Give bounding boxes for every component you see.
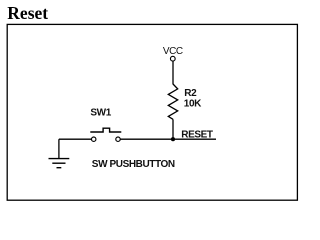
svg-text:SW PUSHBUTTON: SW PUSHBUTTON	[92, 159, 175, 170]
wire SW1 to node RESET	[120, 138, 173, 140]
svg-text:Reset: Reset	[7, 3, 48, 23]
svg-text:R2: R2	[184, 88, 197, 99]
wire ground to SW1	[59, 138, 92, 140]
wire node RESET stub right	[173, 138, 216, 140]
ground	[49, 139, 70, 168]
svg-text:VCC: VCC	[163, 46, 183, 57]
svg-text:SW1: SW1	[90, 108, 111, 119]
junction node RESET	[171, 137, 175, 141]
svg-text:10K: 10K	[184, 99, 202, 110]
power symbol VCC	[163, 46, 183, 61]
resistor R2	[168, 84, 177, 119]
switch SW1 pushbutton	[90, 128, 121, 141]
wire R2 to node RESET	[172, 119, 174, 139]
wire VCC to R2	[172, 61, 174, 84]
